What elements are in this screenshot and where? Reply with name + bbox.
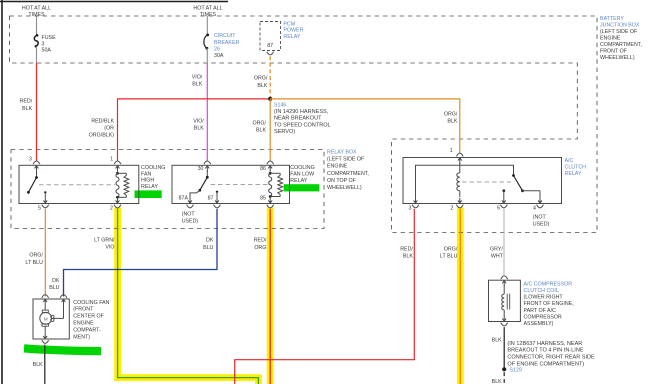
wire GRY/WHT from A/C relay pin 5 to compressor clutch coil (503, 209, 505, 275)
svg-text:RED/: RED/ (400, 246, 413, 252)
svg-text:COMPRESSOR: COMPRESSOR (524, 314, 562, 320)
label VIO/BLK (upper) (192, 74, 203, 87)
wire BLK from cooling fan to ground (44, 345, 46, 384)
fan pin 2 connector (60, 295, 67, 305)
pin 86 connector (260, 161, 274, 172)
wire RED/ORG from relay 2 pin 85 (269, 209, 271, 384)
A/C relay coil (457, 163, 460, 198)
svg-text:SERVO): SERVO) (274, 129, 295, 135)
label RED/ORG (254, 238, 267, 251)
svg-text:COOLING: COOLING (141, 165, 165, 171)
svg-text:BLK: BLK (492, 379, 502, 384)
compressor clutch coil winding (502, 285, 510, 316)
svg-text:USED): USED) (182, 218, 199, 224)
svg-text:FUSE: FUSE (42, 35, 57, 41)
green highlighter on COOLING FAN HIGH RELAY label (135, 190, 162, 198)
label RED/BLK (A/C relay) (400, 246, 413, 259)
green highlighter under cooling fan (24, 348, 101, 351)
label DK BLU (at relay) (203, 238, 214, 251)
svg-text:BREAKOUT TO 4 PIN IN-LINE: BREAKOUT TO 4 PIN IN-LINE (507, 348, 583, 354)
relay 2 coil with resistor (269, 172, 283, 198)
svg-text:1: 1 (110, 156, 113, 162)
svg-text:ON TOP OF: ON TOP OF (327, 178, 357, 184)
svg-text:HOT AT ALL: HOT AT ALL (193, 6, 222, 12)
pin 5 stub (38, 191, 49, 211)
svg-text:USED): USED) (533, 222, 550, 228)
pin 87A connector (not used) (179, 196, 199, 225)
svg-text:87A: 87A (179, 196, 189, 202)
svg-text:BATTERY: BATTERY (600, 16, 624, 22)
svg-text:RED/: RED/ (20, 99, 33, 105)
label ORG/BLK (to pin 86) (252, 121, 266, 134)
svg-text:30A: 30A (214, 53, 224, 59)
relay 1 coil with resistor (116, 172, 129, 199)
svg-text:(LEFT SIDE OF: (LEFT SIDE OF (327, 157, 365, 163)
pin 85 connector (260, 196, 274, 208)
svg-text:3: 3 (409, 205, 412, 211)
svg-text:86: 86 (260, 166, 266, 172)
pin 5 stub (497, 189, 507, 211)
svg-text:DK: DK (52, 278, 60, 284)
cooling fan label (73, 300, 109, 341)
A/C compressor clutch coil box (489, 280, 521, 321)
svg-text:BLK: BLK (256, 128, 266, 134)
svg-text:2: 2 (110, 206, 113, 212)
svg-text:ORG/: ORG/ (444, 246, 458, 252)
svg-text:WHEELWELL): WHEELWELL) (600, 55, 635, 61)
wire RED/BLK from A/C relay pin 3 (235, 209, 415, 384)
svg-text:(LEFT SIDE OF: (LEFT SIDE OF (600, 29, 638, 35)
svg-text:A/C COMPRESSOR: A/C COMPRESSOR (524, 281, 573, 287)
svg-text:FRONT OF ENGINE,: FRONT OF ENGINE, (524, 301, 574, 307)
svg-text:26: 26 (214, 47, 220, 53)
svg-text:RELAY: RELAY (565, 171, 582, 177)
svg-text:RED/BLK: RED/BLK (91, 118, 114, 124)
svg-text:(LOWER RIGHT: (LOWER RIGHT (524, 295, 564, 301)
circuit breaker 26 30A (204, 33, 240, 59)
svg-text:ASSEMBLY): ASSEMBLY) (524, 321, 554, 327)
svg-text:ORG/: ORG/ (252, 121, 266, 127)
cooling fan low relay label (290, 165, 314, 184)
A/C clutch relay box (403, 158, 562, 204)
battery junction box label (600, 16, 642, 61)
svg-text:ORG/BLK): ORG/BLK) (89, 132, 115, 138)
node HOT AT ALL TIMES (breaker feed) (193, 6, 222, 18)
label VIO/BLK (lower) (193, 118, 204, 131)
pin 3 connector (409, 197, 419, 211)
svg-text:A/C: A/C (565, 158, 574, 164)
svg-text:GRY/: GRY/ (490, 246, 503, 252)
svg-text:POWER: POWER (283, 28, 303, 34)
pin 3 connector (29, 156, 40, 171)
svg-text:VIO: VIO (105, 245, 114, 251)
svg-text:M: M (44, 316, 48, 321)
fuse 3 50A (34, 34, 56, 53)
green highlighter on COOLING FAN LOW RELAY label (284, 184, 320, 191)
PCM power relay (dashed box) (260, 22, 281, 51)
wire ORG/BLK from S146 to A/C clutch relay pin 1 (270, 98, 460, 100)
svg-text:RELAY BOX: RELAY BOX (327, 150, 357, 156)
label S146 harness note (274, 103, 331, 136)
pin 1 connector (450, 148, 463, 164)
wire VIO/BLK from breaker down to relay 2 pin 30 (206, 63, 208, 161)
relay 1 mechanical link (39, 184, 115, 186)
svg-text:CLUTCH: CLUTCH (565, 164, 587, 170)
splice S129 (502, 367, 522, 373)
relay 2 switch (190, 171, 209, 198)
label ORG/BLK (PCM drop) (254, 76, 268, 89)
svg-text:ENGINE: ENGINE (600, 35, 621, 41)
label 12B637 harness note (507, 341, 595, 368)
svg-text:50A: 50A (42, 47, 52, 53)
svg-text:(NOT: (NOT (182, 211, 196, 217)
svg-text:HOT AT ALL: HOT AT ALL (22, 6, 51, 12)
motor M1 (40, 305, 64, 333)
svg-text:VIO/: VIO/ (192, 74, 203, 80)
svg-text:RELAY: RELAY (283, 34, 300, 40)
svg-text:(NOT: (NOT (533, 214, 547, 220)
svg-text:HIGH: HIGH (141, 178, 154, 184)
wire breaker feed (206, 16, 208, 35)
A/C relay switch (512, 174, 540, 197)
svg-text:S146: S146 (274, 103, 286, 109)
svg-text:RELAY: RELAY (290, 178, 307, 184)
wire BLK from compressor coil to S129 (503, 327, 505, 369)
svg-text:1: 1 (450, 148, 453, 154)
svg-text:CENTER OF: CENTER OF (73, 314, 104, 320)
svg-text:85: 85 (260, 196, 266, 202)
label ORG/BLK (to A/C relay) (444, 112, 458, 125)
svg-text:COMPARTMENT,: COMPARTMENT, (327, 171, 369, 177)
svg-text:BLK: BLK (447, 119, 457, 125)
pin 2 connector (451, 198, 464, 211)
pin 87 stub (208, 191, 221, 208)
svg-text:ENGINE: ENGINE (327, 164, 348, 170)
svg-text:87: 87 (208, 196, 214, 202)
svg-text:BREAKER: BREAKER (214, 40, 239, 46)
svg-text:NEAR BREAKOUT: NEAR BREAKOUT (274, 116, 322, 122)
svg-text:FAN: FAN (141, 171, 151, 177)
svg-text:30: 30 (198, 166, 204, 172)
svg-text:TIMES: TIMES (200, 12, 217, 18)
svg-text:DK: DK (206, 238, 214, 244)
label GRY/WHT (490, 246, 504, 259)
wire fuse to box edge (36, 46, 38, 63)
wire ORG/BLK from S146 down to relay 2 pin 86 (269, 99, 271, 161)
coil bottom connector (501, 316, 508, 326)
svg-text:ORG/: ORG/ (254, 76, 268, 82)
relay box label (327, 150, 369, 192)
wire ORG/BLK dashed from PCM relay to S146 (269, 56, 271, 99)
svg-text:RED/: RED/ (254, 238, 267, 244)
relay 2 mechanical link (211, 184, 269, 186)
svg-text:CLUTCH COIL: CLUTCH COIL (524, 288, 559, 294)
svg-text:CONNECTOR, RIGHT REAR SIDE: CONNECTOR, RIGHT REAR SIDE (507, 355, 595, 361)
label DK BLU (at fan) (49, 278, 60, 291)
svg-text:LT GRN/: LT GRN/ (94, 238, 115, 244)
svg-text:MENT): MENT) (73, 334, 90, 340)
svg-text:BLK: BLK (33, 362, 43, 368)
svg-text:ORG: ORG (254, 245, 266, 251)
svg-text:87: 87 (267, 43, 273, 49)
cooling fan high relay box (19, 165, 139, 203)
coil top connector (501, 276, 508, 286)
relay 1 switch (27, 171, 38, 194)
page frame (0, 1, 228, 3)
svg-text:ORG/: ORG/ (29, 253, 43, 259)
svg-text:3: 3 (42, 41, 45, 47)
relay box (dashed enclosure) (11, 150, 324, 229)
svg-text:TO SPEED CONTROL: TO SPEED CONTROL (274, 122, 331, 128)
svg-text:LT BLU: LT BLU (440, 253, 458, 259)
label ORG/LT BLU (A/C relay) (440, 246, 458, 259)
svg-text:5: 5 (38, 206, 41, 212)
svg-text:BLK: BLK (192, 82, 202, 88)
svg-text:(IN 14290 HARNESS,: (IN 14290 HARNESS, (274, 109, 329, 115)
svg-text:PART OF A/C: PART OF A/C (524, 308, 557, 314)
svg-text:COMPART-: COMPART- (73, 327, 101, 333)
svg-text:4: 4 (533, 205, 536, 211)
cooling fan box (33, 299, 69, 339)
pin 4 connector (not used) (533, 197, 550, 228)
svg-text:FAN LOW: FAN LOW (290, 172, 314, 178)
battery junction box (dashed enclosure) (10, 16, 598, 233)
svg-text:ENGINE: ENGINE (73, 321, 94, 327)
svg-text:BLK: BLK (22, 106, 32, 112)
wire ORG/LT BLU from A/C relay pin 2 (459, 209, 461, 384)
svg-text:BLK: BLK (257, 83, 267, 89)
svg-text:BLU: BLU (49, 285, 59, 291)
connector cup below PCM relay (267, 52, 274, 55)
svg-text:BLK: BLK (403, 253, 413, 259)
pin 1 connector (110, 156, 121, 171)
svg-text:COMPARTMENT,: COMPARTMENT, (600, 42, 642, 48)
cooling fan high relay label (141, 165, 165, 190)
pin 2 connector (110, 198, 121, 212)
pin 30 connector (198, 161, 211, 172)
highlighter mark over ORG/LT BLU wire (457, 207, 464, 384)
A/C clutch relay label (565, 158, 587, 177)
svg-text:FRONT OF: FRONT OF (600, 48, 628, 54)
PCM power relay label (283, 21, 303, 40)
wire BLK dashed below S129 (503, 372, 505, 384)
cooling fan low relay box (172, 165, 290, 203)
svg-text:CIRCUIT: CIRCUIT (214, 33, 236, 39)
svg-text:BLU: BLU (203, 245, 213, 251)
svg-text:COOLING: COOLING (290, 165, 314, 171)
svg-text:PCM: PCM (283, 21, 295, 27)
wire RED/BLK from fuse down to relay 1 pin 3 (36, 63, 38, 161)
A/C compressor clutch coil label (524, 281, 574, 327)
A/C relay internal bus pin 3 (416, 165, 514, 197)
svg-text:JUNCTION BOX: JUNCTION BOX (600, 22, 640, 28)
fan bottom pin connector (42, 333, 49, 343)
wire DK BLU from relay 2 pin 87 to cooling fan (64, 209, 218, 297)
wire breaker to box edge (206, 48, 208, 63)
splice S146 (268, 97, 272, 101)
svg-text:WHT: WHT (491, 253, 504, 259)
wire ORG/LT BLU from relay 1 pin 5 to cooling fan (44, 209, 46, 297)
highlighter mark over LT GRN/VIO wire (118, 207, 259, 384)
svg-text:RELAY: RELAY (141, 184, 158, 190)
highlighter mark over RED/ORG wire (267, 207, 274, 384)
svg-text:2: 2 (451, 205, 454, 211)
svg-text:(IN 12B637 HARNESS, NEAR: (IN 12B637 HARNESS, NEAR (507, 341, 582, 347)
svg-text:5: 5 (497, 205, 500, 211)
node HOT AT ALL TIMES (fuse feed) (22, 6, 51, 18)
svg-text:ORG/: ORG/ (444, 112, 458, 118)
svg-text:S129: S129 (510, 367, 522, 373)
label RED/BLK (fuse wire) (20, 99, 33, 112)
svg-text:(OR: (OR (104, 125, 114, 131)
svg-text:(FRONT: (FRONT (73, 307, 94, 313)
A/C relay mechanical link (462, 181, 511, 183)
wire RED/BLK horizontal to relay 1 pin 1 (118, 98, 271, 100)
fan pin 1 connector (42, 295, 49, 305)
svg-text:VIO/: VIO/ (193, 118, 204, 124)
svg-text:WHEELWELL): WHEELWELL) (327, 185, 362, 191)
svg-text:BLK: BLK (194, 125, 204, 131)
label ORG/LT BLU (25, 253, 43, 266)
svg-text:LT BLU: LT BLU (25, 260, 43, 266)
svg-text:BLK: BLK (492, 337, 502, 343)
label LT GRN/VIO (94, 238, 115, 251)
wire fuse feed (36, 16, 38, 35)
label RED/BLK (OR ORG/BLK) (89, 118, 115, 138)
svg-text:3: 3 (29, 156, 32, 162)
svg-text:COOLING FAN: COOLING FAN (73, 300, 109, 306)
wire LT GRN/VIO from relay 1 pin 2 (118, 208, 259, 384)
